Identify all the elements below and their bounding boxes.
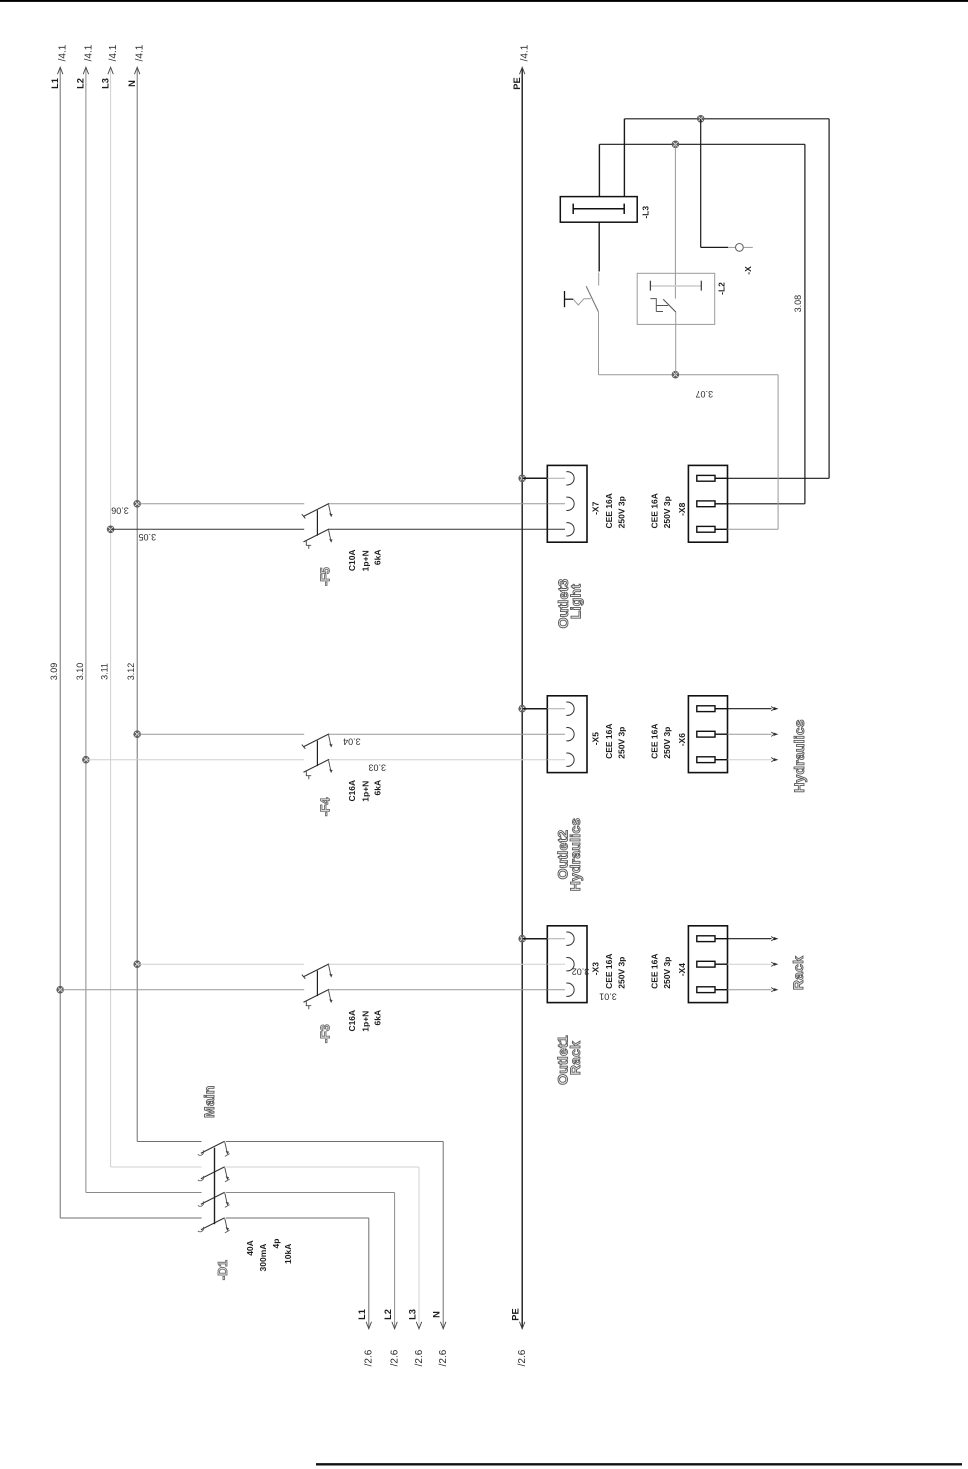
svg-text:N: N (432, 1311, 442, 1318)
svg-text:10kA: 10kA (283, 1244, 293, 1264)
svg-text:/4.1: /4.1 (135, 44, 146, 61)
svg-text:L1: L1 (357, 1309, 367, 1320)
svg-text:3.08: 3.08 (793, 295, 803, 313)
svg-text:Hydraulics: Hydraulics (791, 719, 807, 793)
svg-text:L2: L2 (383, 1309, 393, 1320)
svg-text:40A: 40A (245, 1240, 255, 1256)
svg-text:C10A: C10A (347, 549, 357, 571)
svg-text:L3: L3 (407, 1309, 417, 1320)
svg-text:3.11: 3.11 (100, 663, 110, 680)
svg-text:3.01: 3.01 (599, 992, 617, 1002)
svg-text:Rack: Rack (790, 956, 806, 990)
svg-text:/2.6: /2.6 (364, 1349, 375, 1366)
svg-text:-X5: -X5 (591, 732, 601, 746)
svg-text:250V 3p: 250V 3p (616, 957, 626, 989)
svg-text:L1: L1 (50, 78, 60, 89)
svg-text:6kA: 6kA (373, 780, 383, 796)
svg-text:Main: Main (201, 1085, 217, 1118)
svg-text:-L3: -L3 (641, 206, 651, 219)
svg-text:C16A: C16A (347, 1010, 357, 1032)
svg-text:300mA: 300mA (258, 1244, 268, 1272)
svg-text:3.02: 3.02 (572, 967, 590, 977)
svg-text:-X7: -X7 (591, 501, 601, 515)
svg-text:CEE 16A: CEE 16A (650, 953, 660, 988)
svg-text:CEE 16A: CEE 16A (604, 493, 614, 528)
svg-text:Light: Light (568, 584, 584, 619)
svg-text:3.03: 3.03 (368, 763, 386, 773)
svg-text:6kA: 6kA (373, 1010, 383, 1026)
svg-text:Hydraulics: Hydraulics (567, 818, 583, 892)
svg-text:/4.1: /4.1 (58, 44, 69, 61)
svg-text:N: N (127, 80, 137, 87)
svg-text:-X8: -X8 (677, 502, 687, 516)
svg-text:CEE 16A: CEE 16A (604, 723, 614, 758)
svg-text:3.05: 3.05 (139, 532, 157, 542)
svg-text:-F3: -F3 (318, 1024, 332, 1043)
svg-text:/2.6: /2.6 (414, 1349, 425, 1366)
svg-text:-X3: -X3 (591, 962, 601, 976)
svg-text:1p+N: 1p+N (360, 1011, 370, 1032)
svg-text:-X4: -X4 (677, 963, 687, 977)
svg-text:C16A: C16A (347, 780, 357, 802)
svg-text:3.04: 3.04 (343, 737, 361, 747)
svg-text:1p+N: 1p+N (360, 781, 370, 802)
svg-text:6kA: 6kA (373, 550, 383, 566)
svg-text:L3: L3 (100, 78, 110, 89)
svg-text:/4.1: /4.1 (520, 44, 531, 61)
svg-text:250V 3p: 250V 3p (662, 727, 672, 759)
svg-text:250V 3p: 250V 3p (616, 496, 626, 528)
svg-text:-F4: -F4 (318, 797, 332, 816)
svg-text:-D1: -D1 (216, 1260, 230, 1280)
svg-text:Rack: Rack (567, 1041, 583, 1075)
svg-text:PE: PE (512, 77, 522, 89)
svg-text:-L2: -L2 (717, 282, 727, 295)
svg-text:3.07: 3.07 (696, 389, 714, 399)
svg-text:CEE 16A: CEE 16A (650, 723, 660, 758)
svg-text:CEE 16A: CEE 16A (650, 493, 660, 528)
svg-text:250V 3p: 250V 3p (662, 957, 672, 989)
svg-text:1p+N: 1p+N (360, 550, 370, 571)
svg-text:/4.1: /4.1 (108, 44, 119, 61)
svg-text:3.10: 3.10 (75, 663, 85, 681)
svg-text:CEE 16A: CEE 16A (604, 953, 614, 988)
svg-text:/2.6: /2.6 (389, 1349, 400, 1366)
svg-text:-X: -X (743, 266, 753, 275)
svg-text:3.12: 3.12 (126, 663, 136, 681)
svg-text:PE: PE (511, 1308, 521, 1320)
svg-text:/4.1: /4.1 (83, 44, 94, 61)
svg-text:-X6: -X6 (677, 733, 687, 747)
svg-text:/2.6: /2.6 (517, 1349, 528, 1366)
svg-text:/2.6: /2.6 (438, 1349, 449, 1366)
svg-text:250V 3p: 250V 3p (662, 496, 672, 528)
svg-text:3.06: 3.06 (111, 506, 129, 516)
svg-text:4p: 4p (271, 1239, 281, 1249)
svg-text:L2: L2 (76, 78, 86, 89)
svg-text:-F5: -F5 (318, 567, 332, 586)
svg-text:250V 3p: 250V 3p (616, 727, 626, 759)
svg-text:3.09: 3.09 (49, 663, 59, 681)
